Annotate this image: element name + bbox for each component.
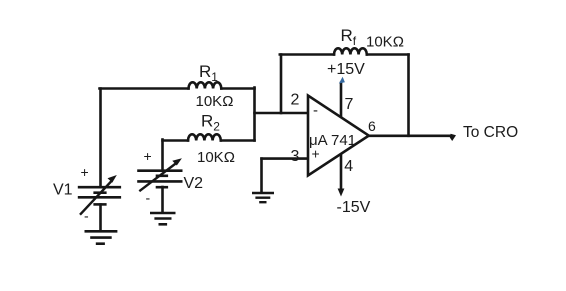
svg-text:10KΩ: 10KΩ [197, 149, 235, 166]
svg-text:V1: V1 [53, 182, 73, 199]
wire to non-inverting input pin 3 [262, 157, 308, 160]
op-amp U1 triangle [308, 96, 369, 176]
resistor Rf [334, 48, 367, 54]
svg-text:+: + [312, 146, 320, 162]
wire junction vertical R1-R2 [253, 88, 256, 141]
svg-text:4: 4 [344, 158, 353, 175]
svg-text:+: + [81, 164, 89, 180]
arrowhead pin 4 (down) [338, 189, 345, 197]
svg-text:3: 3 [291, 148, 300, 165]
wire pin 7 supply [340, 83, 343, 117]
svg-text:10KΩ: 10KΩ [366, 34, 404, 51]
resistor R1 [189, 82, 222, 88]
wire output to CRO [369, 135, 452, 138]
resistor R2 [188, 134, 221, 140]
svg-text:+15V: +15V [327, 61, 365, 78]
wire V2 bottom vertical [161, 187, 164, 212]
wire top-left horizontal to R1 [100, 87, 189, 90]
wire R2 right lead [221, 139, 255, 142]
svg-text:-: - [84, 208, 89, 224]
wire R2 left lead [163, 139, 189, 142]
wire pin 4 supply [340, 154, 343, 191]
wire feedback top left [280, 53, 334, 56]
wire left vertical V1 to R1 [99, 89, 102, 187]
ground (pin 3) [252, 193, 274, 202]
arrowhead V1 [108, 175, 117, 183]
wire to inverting input pin 2 [255, 112, 308, 115]
svg-text:-: - [313, 102, 318, 119]
wire feedback top right [367, 53, 409, 56]
arrowhead output end [450, 134, 456, 141]
svg-text:2: 2 [291, 92, 300, 109]
battery V2 (variable source) [137, 163, 182, 192]
svg-text:-: - [146, 190, 151, 206]
svg-text:7: 7 [345, 96, 354, 113]
wire pin 3 ground vertical [260, 159, 263, 193]
wire feedback right vertical [407, 55, 410, 136]
wire V2 top vertical [161, 140, 164, 171]
wire V1 bottom vertical [99, 205, 102, 231]
ground (V1) [85, 231, 118, 243]
ground (V2) [150, 213, 176, 224]
arrowhead V2 [172, 158, 182, 165]
svg-text:10KΩ: 10KΩ [196, 93, 234, 110]
svg-text:V2: V2 [184, 175, 204, 192]
svg-text:+: + [144, 148, 152, 164]
svg-text:To CRO: To CRO [463, 124, 518, 141]
arrowhead +15V (blue) [339, 77, 345, 84]
wire R1 right lead [221, 87, 254, 90]
svg-text:6: 6 [368, 118, 376, 134]
wire feedback left vertical [280, 55, 283, 114]
svg-text:-15V: -15V [337, 199, 371, 216]
battery V1 (variable source) [78, 181, 121, 215]
